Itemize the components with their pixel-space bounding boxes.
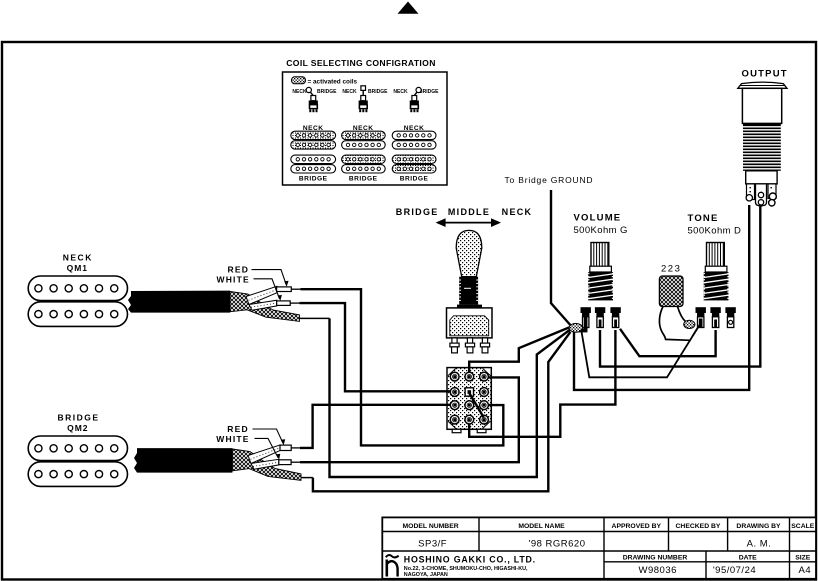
volume pot lug 2 [595, 307, 605, 327]
output jack barrel [742, 88, 781, 123]
svg-text:APPROVED BY: APPROVED BY [612, 523, 662, 530]
svg-text:NECK: NECK [502, 207, 533, 217]
svg-text:QM2: QM2 [67, 423, 88, 433]
volume pot shaft [591, 243, 609, 269]
wire volume ground to jack sleeve [574, 205, 749, 390]
hoshino logo [386, 555, 399, 576]
output jack right lug [768, 184, 776, 206]
volume pot lug 3 [610, 307, 620, 327]
wire bridge red to block lug 3L [291, 405, 452, 448]
tone pot lug 2 [710, 307, 720, 327]
title block values row [418, 538, 771, 549]
svg-text:HOSHINO GAKKI CO., LTD.: HOSHINO GAKKI CO., LTD. [404, 555, 536, 565]
coil selecting configuration box [283, 72, 448, 185]
capacitor 223 body [659, 276, 683, 307]
neck red wire sleeve [246, 286, 291, 304]
volume pot lug 1 [581, 307, 591, 327]
svg-text:TONE: TONE [688, 213, 719, 224]
svg-text:SIZE: SIZE [795, 554, 811, 561]
svg-text:BRIDGE: BRIDGE [396, 207, 439, 217]
svg-text:MODEL NAME: MODEL NAME [518, 523, 565, 530]
volume pot threaded bushing [588, 266, 613, 300]
toggle switch threaded shaft [459, 277, 478, 305]
capacitor lead to tone case ground [678, 307, 686, 322]
svg-text:To Bridge GROUND: To Bridge GROUND [505, 175, 594, 185]
company name and address [404, 555, 536, 579]
svg-text:= activated coils: = activated coils [308, 78, 358, 85]
mini switch position 1 (neck) [292, 87, 337, 112]
tone pot threaded bushing [704, 266, 729, 300]
legend activated coils swatch [292, 77, 358, 86]
wire bridge shield to volume ground [301, 332, 571, 492]
bridge pickup QM2 label [57, 413, 99, 433]
wire volume lug2 to jack tip [600, 206, 760, 367]
drawing number date size values [639, 565, 812, 576]
neck pickup QM1 coils [28, 276, 127, 326]
svg-text:500Kohm G: 500Kohm G [574, 225, 628, 236]
svg-text:SCALE: SCALE [791, 523, 815, 530]
svg-text:BRIDGE: BRIDGE [419, 89, 439, 95]
neck cable shield braid [230, 292, 300, 322]
output jack sleeve lug [746, 184, 754, 201]
mini switch position 3 (bridge) [393, 87, 439, 112]
svg-text:DRAWING NUMBER: DRAWING NUMBER [623, 554, 688, 561]
svg-text:BRIDGE: BRIDGE [368, 89, 388, 95]
toggle switch terminal 1 [450, 338, 459, 353]
svg-text:NECK: NECK [63, 253, 93, 263]
switch position labels [396, 207, 533, 217]
svg-text:BRIDGE: BRIDGE [400, 176, 429, 183]
output jack tip prong [756, 184, 767, 206]
svg-text:BRIDGE: BRIDGE [57, 413, 99, 423]
coil selecting configuration title [286, 58, 436, 68]
svg-text:BRIDGE: BRIDGE [299, 176, 328, 183]
volume case solder blob [569, 323, 582, 332]
block jumper wire [469, 393, 483, 417]
coil bars column 2 [342, 131, 386, 173]
toggle switch terminal 2 [465, 338, 474, 353]
svg-text:VOLUME: VOLUME [574, 212, 622, 223]
svg-text:WHITE: WHITE [217, 274, 250, 284]
mini switch position 2 (middle) [342, 86, 388, 112]
block solder lugs [450, 372, 488, 424]
coil bars column 1 [291, 131, 336, 173]
svg-text:OUTPUT: OUTPUT [742, 69, 788, 80]
registration triangle [398, 2, 419, 14]
svg-text:NAGOYA, JAPAN: NAGOYA, JAPAN [404, 572, 448, 578]
wire tone lug2 to volume case [620, 329, 716, 356]
tone lug1 wire stub [693, 325, 700, 336]
bridge red wire sleeve [248, 445, 291, 464]
svg-text:W98036: W98036 [639, 565, 677, 576]
svg-text:BRIDGE: BRIDGE [349, 176, 378, 183]
To Bridge GROUND label [505, 175, 594, 185]
svg-text:QM1: QM1 [67, 263, 88, 273]
tone case solder blob [684, 320, 695, 328]
capacitor lead to tone lug1 wire [659, 307, 690, 341]
bridge pickup QM2 coils [28, 436, 127, 486]
wire neck white to block lug 2L [290, 303, 452, 391]
neck white wire sleeve [249, 300, 290, 310]
title block grid [382, 517, 816, 578]
neck WHITE label and leader [217, 274, 282, 301]
wire neck shield to volume ground [300, 318, 570, 477]
neck pickup QM1 label [63, 253, 93, 273]
wire to bridge ground [551, 190, 570, 325]
bridge white wire sleeve [251, 459, 291, 469]
neck RED label and leader [228, 265, 289, 287]
volume lug1 ground hook [579, 317, 588, 332]
tone pot shaft [707, 243, 725, 269]
svg-text:NECK: NECK [393, 89, 408, 95]
drawing number date size headers [623, 554, 811, 561]
bridge cable shield braid [232, 449, 301, 480]
svg-text:SP3/F: SP3/F [418, 538, 447, 549]
svg-text:DRAWING BY: DRAWING BY [736, 523, 781, 530]
svg-text:NECK: NECK [292, 89, 307, 95]
svg-text:'98 RGR620: '98 RGR620 [529, 538, 586, 549]
column labels BRIDGE [299, 176, 429, 183]
wire bridge white to block lug 1R [291, 377, 519, 462]
switch wiring block (bottom view) [447, 368, 491, 433]
wire volume ground to tone lug1 [582, 325, 700, 378]
output jack collar [746, 171, 777, 184]
toggle switch body [447, 308, 493, 338]
svg-text:A. M.: A. M. [747, 538, 772, 549]
output jack flange [738, 82, 787, 88]
bridge pickup cable [134, 448, 232, 473]
coil bar pole dots [296, 134, 431, 171]
toggle switch terminal 3 [480, 338, 489, 353]
wire neck red to block lug 3R [291, 289, 503, 445]
output jack threads [742, 123, 782, 170]
tone pot lug 3 [725, 307, 735, 327]
title block headers [403, 523, 815, 530]
svg-text:'95/07/24: '95/07/24 [713, 565, 756, 576]
toggle switch lever knob [456, 230, 482, 276]
svg-text:MODEL NUMBER: MODEL NUMBER [403, 523, 459, 530]
svg-text:223: 223 [661, 264, 681, 275]
svg-text:RED: RED [227, 424, 249, 434]
bridge WHITE label and leader [216, 434, 280, 460]
coil bars column 3 [392, 131, 436, 173]
svg-text:BRIDGE: BRIDGE [317, 89, 337, 95]
capacitor 223 label [661, 264, 681, 275]
svg-text:500Kohm D: 500Kohm D [688, 226, 742, 237]
svg-text:RED: RED [228, 265, 250, 275]
double arrow [436, 218, 501, 227]
OUTPUT label [742, 69, 788, 80]
wire block lug 4M to volume lug3 [469, 330, 615, 437]
bridge RED label and leader [227, 424, 285, 445]
volume pot label [574, 212, 628, 236]
svg-text:CHECKED BY: CHECKED BY [676, 523, 721, 530]
svg-text:WHITE: WHITE [216, 434, 249, 444]
svg-text:A4: A4 [798, 565, 811, 576]
toggle switch mounting flange [457, 305, 482, 309]
tone pot label [688, 213, 742, 236]
svg-text:COIL SELECTING CONFIGRATION: COIL SELECTING CONFIGRATION [286, 58, 436, 68]
tone pot lug 1 [696, 307, 706, 327]
svg-text:MIDDLE: MIDDLE [448, 207, 490, 217]
column labels NECK [303, 125, 425, 132]
svg-text:DATE: DATE [739, 554, 757, 561]
svg-text:NECK: NECK [342, 89, 357, 95]
neck pickup cable [128, 291, 230, 313]
wire block lug 1M to volume ground [469, 327, 569, 376]
